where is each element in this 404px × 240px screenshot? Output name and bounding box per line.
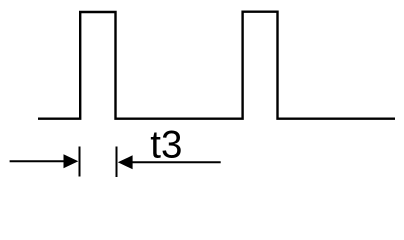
svg-text:t3: t3 [150, 124, 182, 167]
